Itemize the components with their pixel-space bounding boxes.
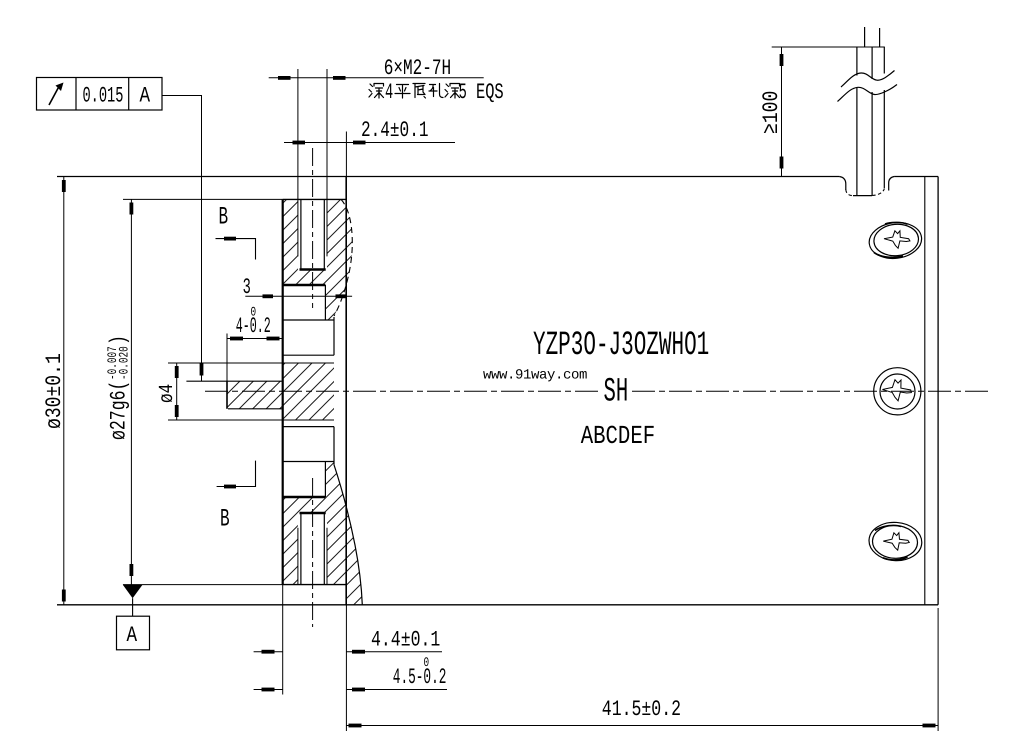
ge100 top extension line (772, 46, 885, 48)
4.4 dimension line left segment (254, 651, 283, 653)
svg-text:6×M2-7H: 6×M2-7H (384, 56, 451, 81)
lower recess top line (283, 461, 334, 463)
dia30 dimension line (63, 177, 65, 605)
dia30 arrow bottom (62, 590, 66, 602)
2.4 extension line right (345, 132, 347, 177)
svg-text:5: 5 (459, 80, 467, 105)
6xM2 arrow left (278, 76, 291, 80)
upper recess bottom line (283, 319, 334, 321)
svg-text:ø30±0.1: ø30±0.1 (42, 353, 67, 429)
lower hole minor walls (301, 513, 324, 585)
lower step face (thick) (283, 496, 326, 498)
screw middle (874, 368, 921, 415)
底 (413, 84, 426, 99)
dia4 arrow top (175, 366, 179, 378)
cable exit right wall and fillet (889, 177, 894, 191)
cable exit left fillet and wall (839, 177, 846, 191)
motor bottom edge + left extension line (57, 604, 938, 606)
upper hole thread walls (298, 199, 327, 256)
ge100 arrow top (780, 54, 784, 66)
2.4 arrow left (293, 141, 306, 145)
upper hole flat bottom (thick) (300, 268, 326, 271)
svg-text:≥100: ≥100 (759, 91, 784, 134)
dia27 dimension line (130, 199, 132, 584)
lower hole centerline (312, 478, 314, 627)
6xM2 dimension line (269, 77, 484, 79)
flange bottom face + extension to left (123, 584, 283, 586)
2.4 arrow right (353, 141, 366, 145)
cable break squiggle lower (838, 85, 898, 102)
深 #2 (445, 84, 460, 99)
FCF leader line (162, 96, 202, 382)
孔 (429, 84, 443, 98)
6xM2 arrow right (333, 76, 346, 80)
upper bearing wall (333, 317, 335, 355)
upper step face (thick) (283, 284, 326, 286)
dia27 arrow bottom (130, 564, 134, 576)
svg-text:41.5±0.2: 41.5±0.2 (602, 697, 681, 722)
dia30 arrow top (62, 180, 66, 192)
shaft dia4 top line (168, 362, 334, 364)
4.4 arrow left (262, 650, 275, 654)
ext line motor right down (937, 608, 939, 731)
平 (395, 85, 410, 99)
FCF leader arrow (200, 363, 204, 376)
6xM2 extension lines (298, 69, 327, 199)
bell curve top (hidden, dashed) (334, 199, 352, 316)
flange top face (123, 198, 283, 200)
3 dimension line (245, 295, 352, 297)
cable exit right bottom dashed arc (872, 189, 884, 196)
flange upper hatched block (283, 199, 353, 320)
4.4 arrow right (352, 650, 365, 654)
4-0.2 extension line (226, 334, 228, 382)
svg-text:A: A (127, 623, 138, 648)
svg-text:EQS: EQS (476, 80, 504, 105)
flange front face (282, 199, 284, 584)
4.5 arrow right (352, 688, 365, 692)
flange lower hatched block (283, 462, 363, 605)
3 arrow right (336, 294, 347, 298)
section B lower arrow (224, 485, 236, 489)
cable exit bottom line (853, 195, 872, 197)
upper bearing bottom line (283, 354, 334, 356)
datum triangle (123, 585, 143, 599)
cable break squiggle upper (841, 71, 895, 88)
screw bottom (868, 521, 923, 563)
svg-text:A: A (140, 84, 151, 109)
svg-text:B: B (220, 505, 230, 534)
main horizontal centerline (205, 390, 598, 392)
svg-text:2.4±0.1: 2.4±0.1 (361, 118, 428, 143)
shaft end face (226, 381, 228, 409)
4.5 arrow left (262, 688, 275, 692)
cable exit left bottom dashed arc (846, 190, 853, 196)
bell curve bottom (solid) (334, 465, 362, 605)
ext line motor face down (345, 605, 347, 731)
shaft core hatched band (227, 363, 334, 420)
motor front face line (345, 177, 347, 605)
shaft dia4 bottom line (168, 419, 334, 421)
svg-text:3: 3 (243, 275, 251, 300)
datum leader (132, 598, 134, 616)
lower recess right wall (324, 462, 326, 498)
upper hole minor walls (301, 199, 324, 269)
svg-text:): ) (107, 335, 132, 345)
svg-text:0: 0 (251, 305, 257, 320)
hole note text CJK: 深4平底孔深5 EQS (369, 80, 504, 105)
41.5 dimension line (346, 725, 938, 727)
feature control frame box (37, 78, 163, 111)
svg-text:ø4: ø4 (156, 384, 179, 403)
dia27g6 text group (105, 335, 132, 440)
motor right inner seam line (924, 177, 926, 605)
upper hole centerline (312, 148, 314, 308)
ext line flange face down (282, 585, 284, 695)
4-0.2 arrow left (230, 337, 243, 341)
runout arrow symbol (49, 86, 60, 106)
motor top edge + left extension line (57, 176, 839, 178)
41.5 arrow left (349, 724, 362, 728)
shaft flat bottom line (228, 408, 283, 410)
motor right outer edge (937, 177, 939, 605)
4.4 dimension line right segment (346, 651, 442, 653)
深 #1 (369, 84, 384, 99)
section B upper leader (216, 239, 256, 260)
motor top edge right of cable exit (894, 176, 938, 178)
2.4 dimension line (284, 142, 455, 144)
4.5 dimension line left segment (254, 689, 283, 691)
datum A box (117, 616, 150, 650)
svg-text:4: 4 (385, 80, 393, 105)
svg-text:-0.020: -0.020 (117, 346, 132, 380)
4-0.2 arrow right (267, 337, 280, 341)
wire stubs above break (865, 27, 880, 47)
lower bearing wall (333, 427, 335, 465)
dia27 arrow top (130, 203, 134, 215)
shaft flat top line (186, 380, 282, 382)
wire vertical lines (857, 47, 884, 196)
svg-text:YZP3O-J3OZWHO1: YZP3O-J3OZWHO1 (533, 327, 709, 365)
svg-text:0: 0 (424, 655, 430, 670)
dia4 arrow bottom (175, 405, 179, 417)
section B upper arrow (224, 237, 236, 241)
lower hole thread walls (298, 528, 327, 585)
3 arrow left (263, 294, 274, 298)
dia4 dimension line (176, 363, 178, 420)
svg-text:4.4±0.1: 4.4±0.1 (371, 628, 440, 653)
svg-text:0.015: 0.015 (83, 84, 124, 109)
svg-text:B: B (219, 203, 229, 232)
screw top (867, 220, 924, 262)
svg-text:ABCDEF: ABCDEF (581, 421, 655, 451)
svg-text:SH: SH (604, 374, 629, 412)
svg-text:4.5-0.2: 4.5-0.2 (393, 665, 447, 690)
lower bearing top line (283, 426, 334, 428)
ge100 dimension line (781, 47, 783, 177)
41.5 arrow right (923, 724, 936, 728)
lower hole flat bottom (thick) (300, 512, 326, 515)
svg-text:www.91way.com: www.91way.com (483, 368, 587, 384)
svg-text:ø27g6(: ø27g6( (107, 381, 132, 440)
section B lower leader (217, 461, 256, 487)
4-0.2 dimension line (227, 338, 283, 340)
4.5 dimension line right segment (346, 689, 447, 691)
upper recess right wall (324, 285, 326, 320)
ge100 arrow bottom (780, 157, 784, 169)
